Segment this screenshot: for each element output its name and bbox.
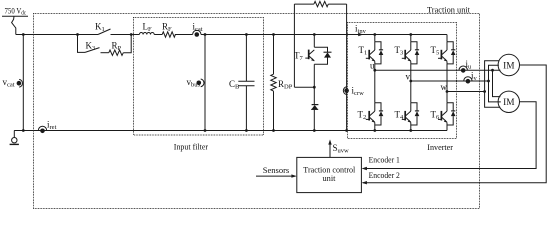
wire: brake branch left vertical	[293, 4, 295, 87]
transistor T4	[402, 81, 420, 125]
svg-text:vbus: vbus	[187, 77, 201, 89]
wire: T4 to rail	[410, 125, 412, 131]
wire: crw vertical	[346, 4, 348, 130]
svg-text:IM: IM	[503, 61, 514, 71]
node: icrw bottom	[345, 129, 348, 132]
node: T7 tap	[313, 33, 316, 36]
svg-text:K1: K1	[95, 22, 105, 34]
node: RDP bottom	[272, 129, 275, 132]
wire: T2 to rail	[374, 125, 376, 131]
wire: phase w line	[447, 91, 485, 93]
dashed box: traction unit	[34, 14, 480, 209]
sensor icrw	[343, 87, 349, 95]
svg-text:iinv: iinv	[355, 24, 367, 36]
node u	[373, 69, 376, 72]
node: K branch tap	[76, 33, 79, 36]
svg-text:icat: icat	[193, 22, 203, 34]
sensor vcat	[17, 79, 23, 87]
arrow sensors	[256, 174, 297, 177]
svg-text:RF: RF	[162, 22, 172, 34]
svg-text:iu: iu	[466, 59, 473, 71]
node: RP branch return	[130, 33, 133, 36]
svg-text:Encoder 1: Encoder 1	[369, 155, 400, 165]
node: v bracket	[487, 80, 490, 83]
box: traction control unit	[297, 157, 362, 192]
svg-text:iv: iv	[471, 71, 478, 83]
wire: vbus vertical	[204, 35, 206, 131]
wire: motor bracket inner (u to IM2)	[493, 70, 501, 96]
dashed box: inverter	[348, 23, 457, 139]
node: CB tap	[245, 33, 248, 36]
node: w bracket	[483, 90, 486, 93]
svg-text:IM: IM	[503, 98, 514, 108]
wire: K3 to RP	[101, 52, 109, 54]
node: T1 bus	[373, 33, 376, 36]
node v	[409, 80, 412, 83]
wire: bus from K1 to filter	[111, 34, 140, 36]
svg-text:T7: T7	[294, 51, 304, 63]
svg-text:T2: T2	[358, 110, 367, 122]
wire: K3 branch down	[78, 35, 86, 53]
svg-text:T1: T1	[359, 45, 368, 57]
wire: brake node horizontal	[294, 86, 314, 88]
switch K3 blade	[85, 48, 100, 53]
sensor icat	[193, 30, 201, 37]
node: RDP tap	[272, 33, 275, 36]
svg-text:T3: T3	[395, 45, 404, 57]
wire: D7 to rail	[313, 110, 315, 131]
resistor RP	[109, 50, 124, 55]
sensor iret	[38, 126, 46, 133]
motor IM1	[498, 54, 519, 75]
sensor iu	[459, 66, 467, 73]
sensor iv	[464, 77, 472, 84]
wire: T7 emitter to brake node	[313, 64, 315, 104]
wire: brake branch top left	[294, 3, 314, 5]
svg-text:Input filter: Input filter	[174, 141, 208, 151]
svg-text:RP: RP	[112, 41, 122, 53]
svg-text:Traction unit: Traction unit	[427, 4, 471, 14]
node: CB bottom	[245, 129, 248, 132]
node w	[446, 90, 449, 93]
pantograph hook	[12, 16, 16, 34]
wire: top bus left segment	[16, 34, 98, 36]
capacitor CB	[238, 35, 254, 131]
wire: RP to bus	[123, 35, 131, 53]
dashed box: input filter	[134, 18, 264, 136]
svg-text:Inverter: Inverter	[427, 142, 453, 152]
wire: RF to icat	[175, 34, 193, 36]
arrow encoder1 head	[362, 167, 367, 170]
transistor T2	[366, 70, 384, 125]
node: vcat tap	[22, 33, 25, 36]
svg-text:vcat: vcat	[3, 77, 15, 89]
svg-text:CB: CB	[229, 79, 240, 91]
svg-text:750 Vdc: 750 Vdc	[5, 6, 27, 16]
wire: LF to RF	[154, 34, 162, 36]
wire: bus mid segment	[201, 34, 447, 36]
svg-text:unit: unit	[323, 173, 337, 183]
svg-text:RDP: RDP	[278, 79, 293, 91]
node: u bracket	[491, 69, 494, 72]
resistor RF	[162, 32, 175, 37]
arrow iinv on bus	[358, 33, 363, 37]
node: vbus bottom	[204, 129, 207, 132]
node: brake-chopper node	[313, 86, 316, 89]
node: T4 rail	[409, 129, 412, 132]
wire: motor bracket outer (w)	[485, 61, 501, 108]
transistor T7	[305, 35, 331, 65]
wire: phase v line	[411, 80, 489, 82]
svg-text:iret: iret	[47, 120, 57, 132]
node: D7 bottom	[313, 129, 316, 132]
node: T2 rail	[373, 129, 376, 132]
switch K1 blade	[98, 29, 111, 35]
wire: T5 to node w	[446, 64, 448, 92]
svg-text:Suvw: Suvw	[333, 143, 350, 155]
svg-text:LF: LF	[143, 22, 153, 34]
transistor T5	[438, 35, 456, 64]
diode D7 freewheel	[311, 105, 318, 110]
wire: vcat vertical	[22, 35, 24, 131]
wire: phase u line	[375, 69, 501, 71]
svg-text:T6: T6	[431, 110, 441, 122]
svg-text:Encoder 2: Encoder 2	[369, 170, 400, 180]
wire: T3 to node v	[410, 64, 412, 81]
wire: brake branch top right	[328, 3, 346, 5]
arrow encoder2 head	[362, 181, 367, 184]
transistor T6	[438, 92, 456, 126]
resistor brake (unlabeled)	[314, 1, 328, 6]
wire: T6 to rail	[446, 125, 448, 131]
svg-text:Sensors: Sensors	[263, 165, 290, 175]
node: T3 bus	[409, 33, 412, 36]
wire: IM1 to encoder2	[363, 65, 547, 183]
svg-text:w: w	[441, 82, 448, 92]
svg-text:K3: K3	[86, 41, 96, 53]
svg-text:icrw: icrw	[352, 86, 365, 98]
transistor T3	[402, 35, 420, 64]
svg-text:v: v	[406, 72, 411, 82]
wire: T1 to node u	[374, 64, 376, 70]
svg-text:T5: T5	[431, 45, 440, 57]
svg-text:u: u	[370, 61, 375, 71]
motor IM2	[498, 91, 519, 112]
svg-text:T4: T4	[395, 110, 405, 122]
ground	[10, 131, 24, 145]
wire: motor bracket middle (v)	[489, 65, 501, 102]
arrow Suvw	[328, 139, 331, 157]
sensor vbus	[197, 79, 204, 87]
wire: IM2 to encoder1	[363, 102, 536, 169]
transistor T1	[366, 35, 384, 64]
inductor LF	[139, 33, 154, 35]
node: vbus tap	[204, 33, 207, 36]
catenary line under 750V label	[2, 15, 28, 17]
wire: bottom return rail	[14, 130, 447, 132]
node: vcat bottom	[22, 129, 25, 132]
resistor RDP	[271, 35, 276, 131]
